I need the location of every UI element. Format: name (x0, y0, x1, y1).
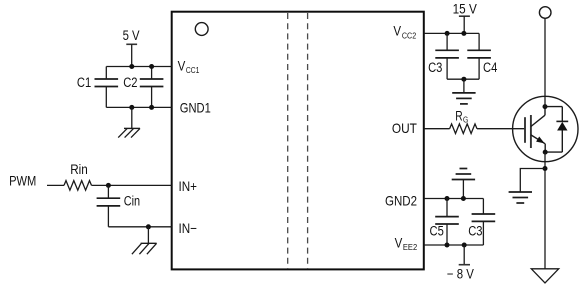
capacitor C3 second (468, 199, 495, 246)
pin label IN+ (179, 178, 198, 194)
isolation barrier dashed line right (307, 13, 309, 268)
wire 5 V stub (131, 44, 133, 66)
svg-text:GND1: GND1 (180, 100, 211, 116)
pin label VEE2 (395, 235, 418, 252)
junction dots GND2 rail (445, 196, 466, 201)
svg-text:15 V: 15 V (453, 2, 477, 17)
wire 15 V stub (463, 16, 465, 33)
junction dots VCC2 rail (445, 31, 467, 36)
svg-text:EE2: EE2 (403, 242, 417, 252)
wire VCC2 rail (424, 32, 479, 34)
svg-text:IN−: IN− (179, 220, 198, 236)
wire IN- ground stub (147, 227, 149, 244)
wire collector (544, 18, 546, 106)
junction dot collector node (543, 104, 548, 109)
svg-text:GND2: GND2 (385, 192, 417, 208)
resistor RG (450, 109, 477, 134)
resistor Rin (64, 162, 92, 190)
ground earth VCC2 (452, 93, 475, 104)
wire GND1 rail (106, 106, 171, 108)
wire earth stub VCC2 (463, 79, 465, 93)
junction dot IN- node (146, 224, 151, 229)
junction dot emitter ground branch (543, 166, 548, 171)
wire VCC1 rail (106, 66, 171, 68)
junction dots VCC1 rail (129, 64, 154, 69)
junction dots GND1 rail (129, 105, 154, 110)
capacitor C1 (77, 67, 118, 108)
wire RG to gate (477, 128, 525, 130)
terminal circle DC+ (539, 7, 551, 19)
wire VEE2 rail (424, 244, 484, 246)
svg-text:OUT: OUT (392, 120, 417, 136)
ground earth emitter (509, 192, 532, 203)
wire GND1 ground stub (131, 107, 133, 128)
ground chassis IN- (132, 243, 157, 254)
wire OUT to RG (424, 128, 450, 130)
15 V terminal tick (459, 15, 470, 17)
svg-text:C2: C2 (123, 75, 137, 90)
svg-text:CC1: CC1 (186, 65, 200, 75)
ground chassis GND1 (118, 128, 140, 137)
isolation barrier dashed line left (287, 13, 289, 268)
wire GND2 rail (424, 198, 484, 200)
capacitor C3 (428, 33, 459, 79)
wire emitter (544, 152, 546, 269)
svg-text:IN+: IN+ (179, 178, 198, 194)
svg-text:CC2: CC2 (402, 30, 416, 40)
svg-text:PWM: PWM (9, 174, 36, 189)
pin label VCC2 (393, 23, 416, 41)
-8 V terminal tick (459, 264, 470, 266)
supply label 5 V (123, 28, 140, 43)
junction dot IN+ node (106, 183, 111, 188)
svg-text:C4: C4 (483, 60, 498, 75)
svg-text:C3: C3 (428, 60, 442, 75)
5 V terminal tick (126, 43, 137, 45)
capacitor C5 (430, 199, 459, 246)
svg-text:C5: C5 (430, 224, 444, 239)
capacitor Cin (97, 185, 140, 226)
junction dot bottom rail (461, 77, 466, 82)
freewheeling diode D1 (545, 107, 568, 153)
IC pin-1 indicator circle (195, 23, 208, 36)
wire C3 C4 bottom rail (447, 78, 479, 80)
wire -8 V stub (463, 245, 465, 265)
wire emitter ground branch (520, 169, 545, 193)
svg-text:C3: C3 (468, 224, 482, 239)
svg-text:V: V (178, 58, 186, 74)
wire IN- rail (108, 226, 171, 228)
gate driver IC body (172, 12, 424, 270)
input label PWM (9, 174, 36, 189)
ground floating GND2 (inverted earth) (452, 169, 475, 199)
junction dots VEE2 rail (445, 243, 467, 248)
wire PWM to Rin (47, 184, 64, 186)
svg-text:Rin: Rin (70, 162, 88, 177)
capacitor C2 (123, 67, 163, 108)
svg-text:− 8 V: − 8 V (447, 266, 474, 281)
svg-text:Cin: Cin (124, 193, 140, 208)
svg-text:C1: C1 (77, 75, 91, 90)
wire Rin to IN+ (92, 184, 172, 186)
pin label GND1 (180, 100, 211, 116)
pin label IN&#8722; (179, 220, 198, 236)
transistor Q1 IGBT (513, 96, 578, 161)
terminal arrow DC- (531, 269, 558, 283)
junction dot emitter node (543, 150, 548, 155)
supply label 15 V (453, 2, 477, 17)
svg-text:V: V (395, 235, 403, 251)
svg-text:V: V (393, 23, 401, 39)
supply label -8 V (447, 266, 474, 281)
pin label OUT (392, 120, 417, 136)
svg-text:5 V: 5 V (123, 28, 140, 43)
capacitor C4 (467, 33, 497, 79)
pin label GND2 (385, 192, 417, 208)
svg-text:R: R (455, 109, 463, 124)
svg-text:G: G (463, 115, 468, 125)
pin label VCC1 (178, 58, 200, 75)
